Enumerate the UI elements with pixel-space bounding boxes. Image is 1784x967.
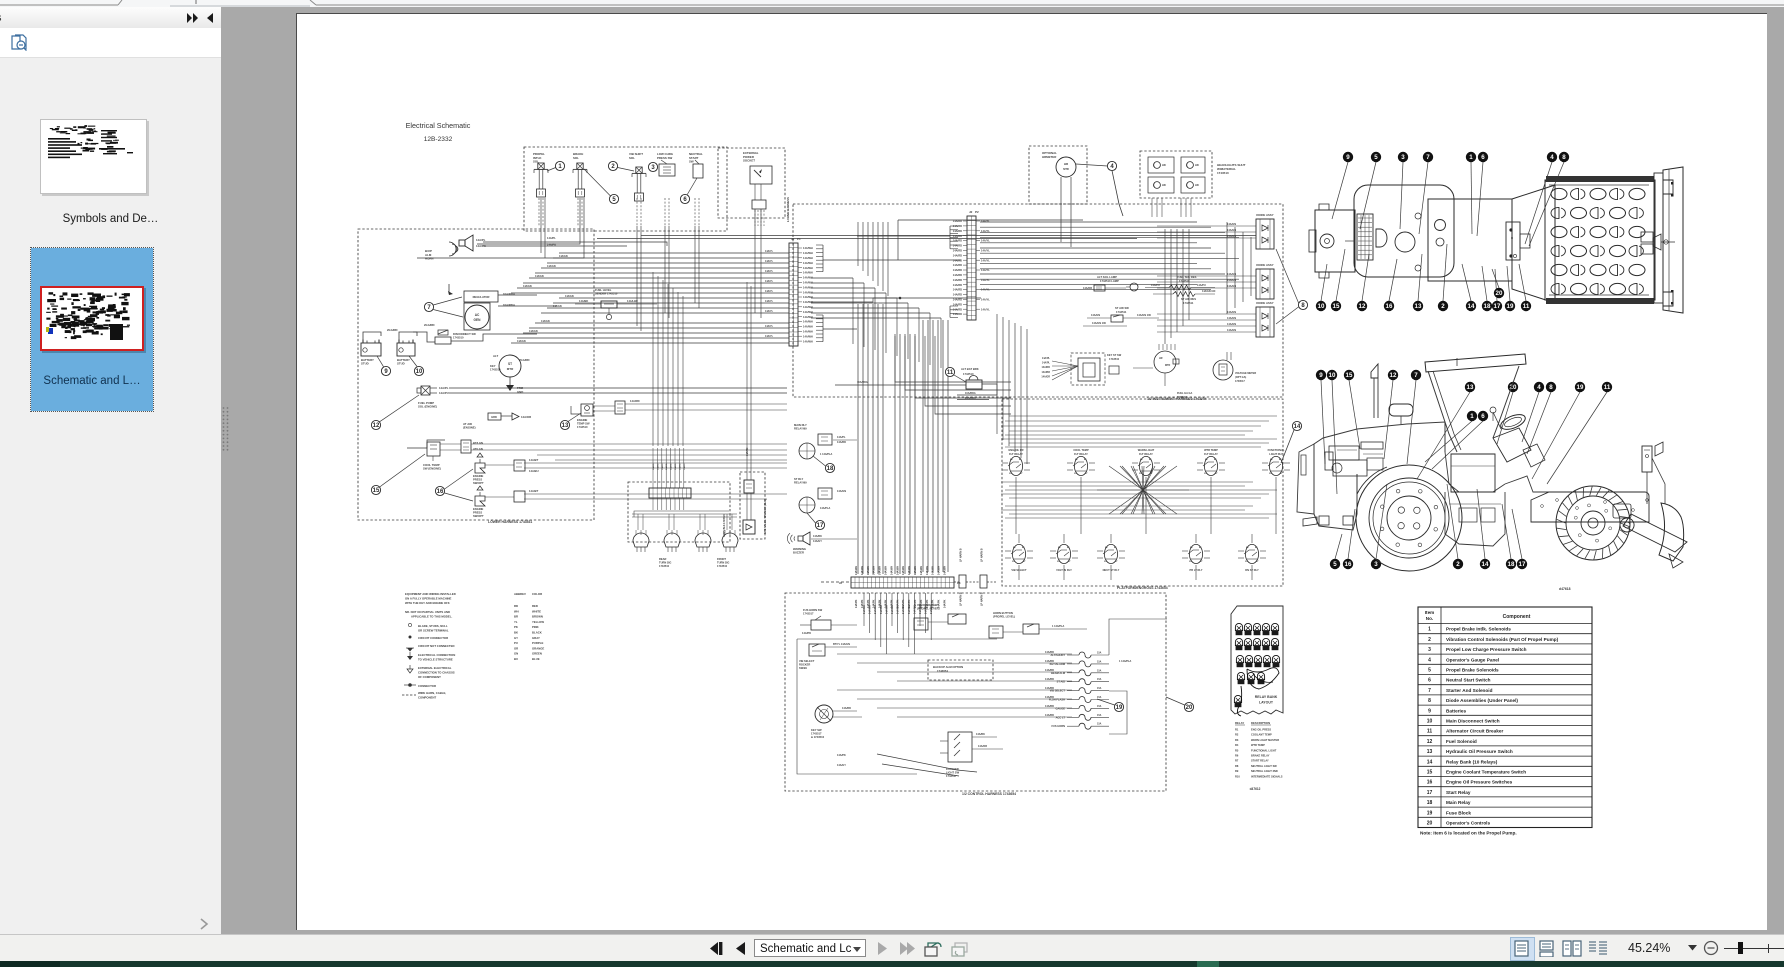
svg-text:10: 10: [1427, 719, 1433, 725]
svg-text:14A/WH: 14A/WH: [803, 251, 813, 255]
svg-text:GAUGE: GAUGE: [1055, 706, 1065, 710]
svg-text:R4: R4: [1235, 743, 1239, 747]
svg-text:14A/YL: 14A/YL: [981, 307, 990, 311]
wire cross X junction: [1109, 466, 1177, 514]
callout 20 (harness): [1184, 702, 1193, 711]
svg-text:14A/YL: 14A/YL: [765, 250, 774, 253]
svg-text:Propel Brake Solenoids: Propel Brake Solenoids: [1446, 668, 1499, 673]
alternator circuit breaker 11: [945, 367, 954, 376]
svg-text:10A/RDA: 10A/RDA: [857, 381, 868, 384]
svg-text:14A/GN: 14A/GN: [547, 265, 556, 268]
callout 19 (top view bottom): [1507, 266, 1510, 301]
svg-text:14A/WH: 14A/WH: [803, 295, 813, 299]
svg-text:15A: 15A: [1097, 696, 1102, 699]
callout 14: [1292, 421, 1301, 430]
svg-text:BK: BK: [514, 631, 518, 635]
callout 12 (top view bottom): [1362, 254, 1369, 301]
relay WTR TEMP: [1204, 456, 1217, 475]
svg-text:TURN SIG: TURN SIG: [717, 561, 729, 565]
top tab bar sliver: [0, 0, 1784, 7]
control harness dashed box: [785, 593, 1166, 791]
svg-text:15A: 15A: [1097, 660, 1102, 663]
external power socket dashed box: [718, 148, 785, 218]
svg-text:14A/BT: 14A/BT: [529, 489, 539, 493]
svg-text:MAIN RLY: MAIN RLY: [794, 423, 807, 427]
svg-text:6: 6: [1481, 413, 1485, 420]
engine oil pressure switch 16b: [475, 496, 485, 506]
verticals mid top: [857, 222, 859, 266]
svg-text:RD: RD: [514, 604, 518, 608]
svg-text:14: 14: [1427, 759, 1433, 765]
svg-text:FUNCTIONAL LIGHT: FUNCTIONAL LIGHT: [1251, 748, 1277, 752]
svg-text:3: 3: [1374, 561, 1378, 568]
svg-text:14A/WH: 14A/WH: [914, 566, 917, 575]
svg-text:COOLANT TEMP: COOLANT TEMP: [1251, 733, 1272, 737]
svg-text:5: 5: [1428, 668, 1431, 674]
callout 5 (top view): [1360, 162, 1376, 229]
svg-text:BROWN: BROWN: [532, 615, 543, 619]
svg-text:FUS HORN: FUS HORN: [1051, 724, 1065, 728]
side callout 15: [1349, 380, 1360, 449]
console detail: [1506, 222, 1520, 260]
key ignition switch: [815, 705, 833, 723]
svg-text:14A/RD: 14A/RD: [953, 263, 962, 267]
platform box internal wiring: [1009, 415, 1277, 417]
svg-text:14A/PU: 14A/PU: [1151, 284, 1160, 287]
svg-text:FRONT: FRONT: [717, 557, 726, 561]
callout 7 (top view): [1419, 162, 1428, 234]
thumbnail 2: selected, Schematic page: [31, 248, 153, 411]
svg-text:86: 86: [1205, 459, 1208, 461]
svg-text:Component: Component: [1503, 614, 1531, 620]
svg-text:GND: GND: [517, 390, 523, 394]
svg-text:HD: HD: [1195, 183, 1199, 187]
svg-text:SOL (ENGINE): SOL (ENGINE): [418, 405, 437, 409]
relay bank row 4: [1237, 672, 1244, 679]
svg-text:86: 86: [1270, 459, 1273, 461]
side callout 8: [1527, 392, 1551, 454]
svg-text:R5: R5: [1235, 748, 1239, 752]
bus J2 right to relay blocks: [980, 221, 1197, 223]
svg-text:11: 11: [1523, 303, 1530, 310]
solenoid wires descending to bus: [636, 226, 638, 326]
svg-text:PLATFORM/ENGROSS 1743654: PLATFORM/ENGROSS 1743654: [1117, 586, 1168, 590]
svg-text:14A/WH: 14A/WH: [803, 330, 813, 334]
svg-text:PRESS: PRESS: [473, 511, 482, 515]
neck trapezoid: [1512, 185, 1555, 303]
lower engine harness dashed box: [358, 229, 594, 520]
svg-text:Main Relay: Main Relay: [1446, 800, 1471, 805]
hitch center: [1641, 232, 1653, 242]
svg-text:14A/WH: 14A/WH: [885, 605, 888, 614]
svg-text:14A/PU: 14A/PU: [1197, 284, 1206, 287]
wire riser bundle control box: [863, 593, 865, 626]
svg-text:17: 17: [1494, 303, 1501, 310]
svg-text:RED: RED: [532, 604, 538, 608]
svg-text:4: 4: [1550, 154, 1554, 161]
svg-text:Item: Item: [1425, 610, 1434, 615]
svg-text:1743511: 1743511: [1116, 310, 1127, 314]
svg-text:1 14A/PLA: 1 14A/PLA: [820, 453, 833, 456]
svg-text:DESCRIPTION: DESCRIPTION: [1251, 721, 1270, 725]
ground symbol: [509, 377, 511, 385]
svg-text:14A/YL: 14A/YL: [981, 298, 990, 302]
svg-text:SOL: SOL: [573, 156, 579, 160]
wire bus: horn to center: [483, 242, 667, 246]
svg-text:14A/PL: 14A/PL: [837, 436, 846, 439]
svg-text:FLT RELAY: FLT RELAY: [1204, 452, 1218, 456]
svg-text:ENG/OIL PR: ENG/OIL PR: [1009, 448, 1024, 452]
svg-text:1743517: 1743517: [1177, 396, 1187, 399]
callout 1 (top view): [1471, 162, 1472, 234]
relay WARN LIGHT: [1139, 456, 1152, 475]
svg-text:9: 9: [1428, 708, 1431, 714]
bottom chevron: [198, 918, 210, 930]
svg-text:FUNCTIONAL: FUNCTIONAL: [1268, 448, 1285, 452]
svg-text:Vibration Control Solenoids (P: Vibration Control Solenoids (Part Of Pro…: [1446, 637, 1559, 642]
relay NEUT ST RLY: [1104, 544, 1117, 563]
svg-text:14A/G: 14A/G: [656, 463, 659, 470]
svg-text:15A: 15A: [1097, 687, 1102, 690]
svg-text:RELAY/99: RELAY/99: [794, 427, 807, 431]
engine oil pressure switch 16a: [475, 463, 485, 473]
callout 2: [608, 161, 617, 170]
svg-text:HD: HD: [1162, 163, 1166, 167]
seat base: [1505, 476, 1549, 492]
side callout 18 (bottom): [1502, 504, 1511, 559]
verticals from instrument box to platform box: [996, 314, 998, 434]
alternator 7: [464, 291, 498, 302]
svg-text:14A/WH: 14A/WH: [885, 566, 888, 575]
svg-text:CIRCUIT CONNECTOR: CIRCUIT CONNECTOR: [418, 636, 448, 640]
svg-text:ON A FULLY OPERABLE MACHINE: ON A FULLY OPERABLE MACHINE: [405, 597, 452, 601]
svg-text:15A: 15A: [1097, 678, 1102, 681]
svg-text:14A/GN: 14A/GN: [1227, 223, 1236, 226]
side callout 9: [1321, 380, 1325, 464]
wire bus: left staircase into J1: [559, 252, 789, 254]
callout 6 (top view): [1477, 162, 1483, 236]
svg-text:14A/GY: 14A/GY: [837, 764, 846, 767]
svg-text:YELLOW: YELLOW: [532, 620, 544, 624]
rear frame plate: [1297, 444, 1314, 514]
svg-text:COOL TEMP: COOL TEMP: [1073, 448, 1089, 452]
blade mast: [1642, 446, 1652, 472]
svg-text:14A/GN 100: 14A/GN 100: [1092, 322, 1107, 325]
exhaust stack: [1371, 364, 1378, 378]
front turn signal lamp L: [695, 533, 711, 547]
svg-text:1: 1: [1469, 154, 1473, 161]
svg-text:SW/OPT: SW/OPT: [473, 481, 484, 485]
svg-text:1743654: 1743654: [937, 669, 948, 673]
svg-text:R3: R3: [1235, 738, 1239, 742]
svg-text:ENGINE: ENGINE: [473, 474, 484, 478]
callout 8 (top view): [1529, 162, 1564, 246]
svg-text:BLACK: BLACK: [532, 631, 542, 635]
svg-text:20: 20: [1496, 290, 1503, 297]
svg-text:KEY SW: KEY SW: [811, 728, 822, 732]
svg-text:Start Relay: Start Relay: [1446, 790, 1471, 795]
starter and solenoid: [499, 355, 521, 377]
callout 9 (top view): [1332, 162, 1348, 219]
svg-text:EQUIPMENT AND WIRING INSTALLED: EQUIPMENT AND WIRING INSTALLED: [405, 592, 456, 596]
svg-text:FLT RELAY: FLT RELAY: [1009, 452, 1023, 456]
wire bus pair from brake sol down-left: [477, 198, 580, 244]
callout 13: [560, 420, 569, 429]
svg-text:Fuse Block: Fuse Block: [1446, 810, 1471, 815]
svg-text:FUS HORN SW: FUS HORN SW: [803, 608, 823, 612]
svg-text:1743510 LAMP: 1743510 LAMP: [1100, 279, 1119, 283]
svg-text:2: 2: [1456, 561, 1460, 568]
headlight lamps: [1148, 157, 1174, 173]
svg-text:ORANGE: ORANGE: [532, 646, 544, 650]
svg-text:19: 19: [1427, 810, 1433, 816]
svg-text:18: 18: [1508, 561, 1515, 568]
side callout 1: [1425, 421, 1472, 462]
svg-text:Note: Item 6 is located on the: Note: Item 6 is located on the Propel Pu…: [1420, 831, 1517, 836]
svg-text:2: 2: [1428, 637, 1431, 643]
component table: [1418, 607, 1592, 828]
svg-text:STUD: STUD: [361, 362, 369, 366]
svg-text:14A/WH: 14A/WH: [908, 566, 911, 575]
svg-text:LP HARN B: LP HARN B: [981, 592, 984, 606]
svg-text:6: 6: [1428, 678, 1431, 684]
svg-text:14A/G: 14A/G: [670, 463, 673, 470]
svg-text:PINK: PINK: [532, 625, 539, 629]
svg-text:ABBREV: ABBREV: [514, 592, 526, 596]
relay FUNCTIONAL: [1269, 456, 1282, 475]
svg-text:1743517: 1743517: [811, 732, 822, 736]
svg-text:BR: BR: [514, 615, 518, 619]
svg-text:86: 86: [1075, 459, 1078, 461]
svg-text:FUEL SOL RES: FUEL SOL RES: [1177, 275, 1197, 279]
svg-text:14A/GY: 14A/GY: [813, 540, 822, 543]
svg-text:14A/LBU: 14A/LBU: [627, 299, 638, 303]
svg-text:HORN: HORN: [425, 257, 434, 261]
svg-text:COMPONENT: COMPONENT: [418, 696, 436, 700]
svg-text:RELAY: RELAY: [1235, 721, 1244, 725]
svg-text:13: 13: [1415, 303, 1422, 310]
next view icon (disabled): [950, 940, 970, 958]
svg-text:14A/WH: 14A/WH: [803, 261, 813, 265]
callout 8: [1298, 300, 1307, 309]
svg-text:1: 1: [1470, 413, 1474, 420]
warning buzzer: [803, 532, 810, 545]
svg-text:14A/BK: 14A/BK: [976, 733, 985, 736]
svg-text:ST AID RES: ST AID RES: [1181, 297, 1196, 301]
speaker: [746, 493, 748, 520]
svg-text:P2: P2: [975, 210, 979, 214]
svg-text:14A/YL: 14A/YL: [765, 325, 774, 328]
svg-text:14A/PU: 14A/PU: [439, 391, 449, 395]
engine compartment details: [1329, 446, 1359, 460]
svg-text:14A/PL: 14A/PL: [439, 386, 449, 390]
svg-text:13: 13: [562, 423, 569, 429]
headlight dashed box: [1140, 151, 1212, 198]
svg-text:2GA/RD: 2GA/RD: [424, 323, 435, 327]
svg-text:(PROPEL LEVER): (PROPEL LEVER): [917, 607, 940, 611]
svg-text:87: 87: [1200, 561, 1203, 563]
engine coolant temp sender 13: [571, 406, 581, 414]
relay PR LT RLY: [1189, 544, 1202, 563]
svg-text:10A/RDA: 10A/RDA: [503, 292, 515, 296]
svg-text:87: 87: [1020, 473, 1023, 475]
callout 16: [435, 486, 444, 495]
svg-text:14A/YL: 14A/YL: [765, 310, 774, 313]
svg-text:R7: R7: [1235, 759, 1239, 763]
svg-text:AT/LGN: AT/LGN: [473, 447, 483, 451]
hood/body outline: [1314, 422, 1445, 514]
svg-text:14A/WH: 14A/WH: [896, 566, 899, 575]
svg-text:19: 19: [1507, 303, 1514, 310]
key start switch (panel): [1071, 353, 1105, 385]
relay VIB SELECT: [1012, 544, 1025, 563]
svg-text:14: 14: [1482, 561, 1489, 568]
svg-text:1743517: 1743517: [1235, 380, 1245, 383]
svg-text:14A/GN: 14A/GN: [529, 330, 538, 333]
turn lamp distribution wires: [634, 511, 729, 517]
svg-text:KEY ST SW: KEY ST SW: [1107, 353, 1122, 357]
page dropdown: [754, 939, 866, 957]
svg-text:SW: SW: [689, 160, 694, 164]
svg-text:14A/GN: 14A/GN: [565, 295, 574, 298]
svg-text:14A/PL: 14A/PL: [476, 238, 486, 242]
canopy posts: [1428, 371, 1457, 452]
svg-text:BLUE: BLUE: [532, 657, 540, 661]
svg-text:R6: R6: [1235, 754, 1239, 758]
svg-text:14A/RD: 14A/RD: [953, 268, 962, 272]
svg-text:No.: No.: [1426, 616, 1433, 621]
svg-text:14A/G: 14A/G: [661, 463, 664, 470]
svg-text:15A: 15A: [1097, 723, 1102, 726]
svg-text:14A/RD: 14A/RD: [953, 239, 962, 243]
svg-text:RELAY BANK: RELAY BANK: [1255, 695, 1278, 699]
svg-text:DIODE ASSY: DIODE ASSY: [1256, 301, 1273, 305]
svg-text:14A/RD: 14A/RD: [630, 399, 640, 403]
light switch: [948, 732, 972, 762]
svg-text:14A/GN: 14A/GN: [1227, 323, 1236, 326]
battery 10: [397, 343, 415, 356]
svg-text:16: 16: [437, 489, 444, 495]
svg-text:HR: HR: [1159, 357, 1163, 360]
svg-text:14A/WH: 14A/WH: [803, 285, 813, 289]
svg-text:Diode Assemblies (Under Panel): Diode Assemblies (Under Panel): [1446, 698, 1518, 703]
svg-text:17: 17: [1427, 790, 1433, 796]
relay ENG/OIL PR: [1009, 456, 1022, 475]
svg-text:14A/G: 14A/G: [652, 463, 655, 470]
cab plate: [1428, 199, 1512, 281]
svg-text:BT/YL 14A/GN: BT/YL 14A/GN: [833, 643, 850, 646]
svg-text:d47618: d47618: [1559, 587, 1571, 591]
svg-text:(PROPEL LEVEL): (PROPEL LEVEL): [993, 615, 1015, 619]
side callout 12: [1384, 380, 1393, 459]
side callout 3 (bottom): [1376, 484, 1387, 559]
svg-text:NEUTRAL LIGHT SW: NEUTRAL LIGHT SW: [1251, 764, 1277, 768]
svg-text:14A/WH: 14A/WH: [902, 605, 905, 614]
blade lift arm: [1620, 518, 1634, 532]
engine end block: [1315, 210, 1355, 272]
svg-text:12: 12: [373, 423, 380, 429]
svg-text:14A/YL: 14A/YL: [981, 239, 990, 243]
staircase bus J1 to J2: [811, 277, 853, 279]
turn lamp connector block: [649, 488, 691, 498]
svg-text:WTR TEMP: WTR TEMP: [1251, 743, 1265, 747]
svg-text:GN: GN: [514, 652, 518, 656]
callout 7: [424, 302, 433, 311]
svg-text:14A/RD: 14A/RD: [1045, 714, 1054, 717]
svg-text:Starter And Solenoid: Starter And Solenoid: [1446, 688, 1493, 693]
svg-text:FLSH FLASH: FLSH FLASH: [1049, 698, 1065, 702]
prev view icon: [923, 940, 943, 958]
left panel: [0, 7, 221, 935]
svg-text:14A/YL: 14A/YL: [981, 278, 990, 282]
flasher wires diagonal: [877, 754, 977, 772]
operator solenoid harness dashed box: [524, 147, 727, 231]
svg-text:ALT FAIL LAMP: ALT FAIL LAMP: [1097, 275, 1117, 279]
nested corner wires to platform: [895, 336, 1011, 382]
svg-text:14A/WH: 14A/WH: [855, 566, 858, 575]
radiator grille: [1357, 214, 1373, 260]
relay DN ST RLY: [1245, 544, 1258, 563]
svg-text:14A/RD: 14A/RD: [953, 307, 962, 311]
splitter grip dots: [221, 406, 231, 454]
connector pair: [461, 440, 471, 453]
svg-text:7: 7: [1426, 154, 1430, 161]
svg-text:14A/PK: 14A/PK: [855, 599, 858, 608]
comb bracket lower (J1 pins group): [816, 314, 823, 316]
svg-text:1743510: 1743510: [453, 336, 464, 340]
callout 14 (top view bottom): [1462, 264, 1471, 301]
svg-text:LP HARN B: LP HARN B: [981, 548, 984, 562]
svg-text:14A/WH: 14A/WH: [803, 320, 813, 324]
fuse block (10 fuses): [1079, 652, 1091, 658]
inline connector C2: [980, 575, 987, 588]
svg-text:BEAM ALM: BEAM ALM: [1051, 671, 1065, 675]
svg-text:Relay Bank (10 Relays): Relay Bank (10 Relays): [1446, 759, 1498, 764]
svg-text:SW (ENGINE): SW (ENGINE): [423, 467, 441, 471]
svg-text:Propel Low Charge Pressure Swi: Propel Low Charge Pressure Switch: [1446, 647, 1527, 652]
callout 10 (top view bottom): [1321, 264, 1327, 301]
bottom toolbar: [0, 934, 1784, 962]
svg-text:14A/BK: 14A/BK: [579, 299, 588, 303]
svg-text:14A/RD: 14A/RD: [953, 288, 962, 292]
speaker option dashed box: [740, 472, 765, 539]
svg-text:3: 3: [1401, 154, 1405, 161]
panel toolbar row: [0, 28, 221, 58]
svg-text:14A/PLA: 14A/PLA: [820, 507, 830, 510]
connector strip J2 (instrument harness): [967, 216, 976, 320]
callout 15 (top view bottom): [1336, 249, 1345, 301]
svg-text:86: 86: [1140, 459, 1143, 461]
comb bracket upper (J1 pins group): [816, 244, 823, 246]
svg-text:SOCKET: SOCKET: [743, 159, 755, 163]
callout 5: [609, 194, 618, 203]
operator platform: [1445, 452, 1505, 492]
svg-text:HRMETER: HRMETER: [1042, 155, 1057, 159]
svg-text:87: 87: [1068, 561, 1071, 563]
svg-text:1/2 CONTROL HARNESS 1743654: 1/2 CONTROL HARNESS 1743654: [962, 792, 1016, 796]
svg-text:14A/RD: 14A/RD: [953, 312, 962, 316]
vertical bundle right of J2: [1164, 229, 1166, 344]
svg-text:19: 19: [1577, 384, 1584, 391]
svg-text:SW/99: SW/99: [799, 666, 807, 670]
svg-text:R1: R1: [1235, 728, 1239, 732]
svg-text:BU: BU: [514, 657, 518, 661]
svg-text:14A/BK: 14A/BK: [813, 535, 822, 538]
chassis frame to blade: [1531, 492, 1649, 522]
callout 1: [555, 161, 564, 170]
svg-text:Neutral Start Switch: Neutral Start Switch: [1446, 678, 1491, 683]
side callout 17 (bottom): [1512, 509, 1522, 559]
